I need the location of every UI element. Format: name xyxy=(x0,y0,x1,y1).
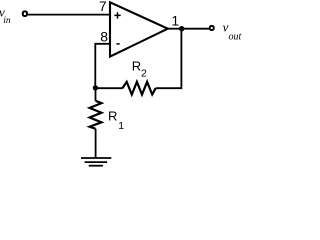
ground xyxy=(81,158,111,166)
junction node B (output) xyxy=(179,26,184,31)
svg-text:1: 1 xyxy=(118,120,124,132)
svg-text:R: R xyxy=(132,59,141,74)
wire: inverting input to feedback node xyxy=(95,44,110,88)
svg-text:in: in xyxy=(3,16,11,26)
resistor R1 xyxy=(90,101,102,129)
label R1 xyxy=(108,109,124,133)
wire: output down to R2 xyxy=(156,29,182,88)
junction node A (inverting/feedback) xyxy=(93,85,98,90)
op-amp U1 xyxy=(110,2,168,56)
svg-text:R: R xyxy=(108,109,117,124)
wire: op-amp output to v_out terminal xyxy=(168,28,210,30)
svg-text:2: 2 xyxy=(141,68,147,80)
svg-text:8: 8 xyxy=(100,29,108,45)
node v_out label xyxy=(223,20,242,43)
wire: R1 to ground xyxy=(95,129,97,158)
svg-text:out: out xyxy=(229,31,242,42)
svg-text:1: 1 xyxy=(171,12,179,28)
wire: node A to R2 xyxy=(95,87,122,89)
wire: v_in to op-amp + input xyxy=(28,14,110,16)
label R2 xyxy=(132,59,147,80)
terminal input (open circle) xyxy=(23,11,27,16)
node v_in label xyxy=(0,4,11,25)
resistor R2 xyxy=(122,82,155,95)
terminal output (open circle) xyxy=(210,26,214,30)
wire: node A down to R1 xyxy=(95,88,97,101)
svg-text:7: 7 xyxy=(99,0,107,14)
